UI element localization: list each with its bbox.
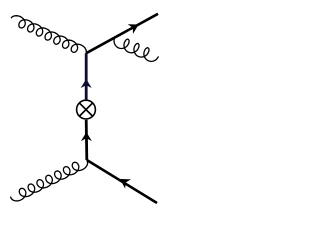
gluon line g1 (incoming gluon, top-left): [11, 16, 86, 54]
gluon line g3 (radiated gluon, top-right): [114, 39, 158, 62]
fermion line q2 (incoming quark, bottom-right): [87, 160, 157, 203]
fermion propagator (navy, operator to top vertex): [81, 53, 92, 99]
fermion propagator (bottom vertex to operator): [81, 120, 92, 160]
fermion line q1 (outgoing quark, top-right): [86, 14, 158, 53]
operator insertion (circled cross): [77, 100, 96, 119]
gluon line g2 (incoming gluon, bottom-left): [11, 160, 88, 201]
